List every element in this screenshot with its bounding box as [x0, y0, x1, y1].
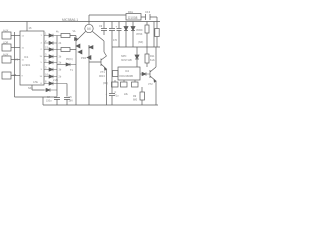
wire top supply bus — [0, 21, 160, 23]
svg-text:3b: 3b — [59, 56, 62, 59]
wire right rail — [156, 28, 158, 47]
svg-text:AUX: AUX — [3, 53, 9, 57]
wire bottom left ground — [15, 96, 58, 98]
resistor R11 — [146, 22, 148, 26]
svg-text:C13: C13 — [145, 10, 151, 14]
svg-text:(NF): (NF) — [138, 40, 143, 44]
battery box GB — [2, 72, 11, 79]
zener VD7 — [124, 22, 128, 48]
svg-text:470: 470 — [113, 39, 118, 42]
svg-text:5: 5 — [45, 59, 47, 63]
capacitor C4 — [54, 98, 60, 106]
resistor R2 — [61, 48, 70, 52]
wire R2 to bridge — [70, 49, 76, 51]
diode VD2 — [78, 50, 82, 54]
wire GB to IC — [11, 75, 20, 77]
svg-text:D1k: D1k — [128, 10, 134, 14]
IC interior pin digits — [22, 35, 43, 85]
wire R1 to bridge — [70, 36, 76, 42]
diode VD5 — [44, 88, 57, 91]
svg-text:VD6C: VD6C — [136, 29, 143, 32]
svg-text:2b: 2b — [59, 62, 62, 65]
svg-text:3: 3 — [45, 66, 47, 70]
wire S1 to IC — [11, 35, 20, 37]
resistor R1 — [61, 34, 70, 38]
svg-text:9: 9 — [22, 76, 24, 78]
svg-text:PR(C): PR(C) — [66, 58, 73, 61]
svg-text:M: M — [87, 26, 90, 31]
svg-text:AUX: AUX — [3, 29, 9, 33]
svg-text:IC1: IC1 — [24, 55, 29, 59]
svg-text:VS: VS — [15, 59, 19, 62]
svg-text:16: 16 — [40, 76, 43, 78]
wire second top bus — [89, 15, 157, 28]
svg-text:2.2k: 2.2k — [53, 78, 59, 82]
diode VD1 — [76, 44, 80, 48]
resistor R6 — [113, 71, 119, 77]
wire motor top pin — [88, 15, 90, 24]
resistor R7 — [112, 82, 119, 87]
svg-text:12: 12 — [22, 36, 25, 38]
capacitor C12 — [109, 94, 115, 96]
wire S2 to IC — [11, 47, 20, 49]
svg-text:16: 16 — [45, 73, 48, 77]
svg-text:4k: 4k — [56, 31, 59, 34]
wire bridge right vertical — [103, 41, 105, 52]
wire bridge right diagonal — [93, 32, 105, 42]
resistor R12 — [146, 47, 148, 54]
svg-text:LC901: LC901 — [22, 63, 31, 67]
svg-text:R11: R11 — [150, 55, 155, 58]
svg-text:11: 11 — [22, 60, 25, 62]
motor M circle — [85, 24, 93, 32]
svg-text:KD9-9600B: KD9-9600B — [120, 74, 134, 78]
switch box S3 — [2, 56, 11, 63]
svg-text:VA: VA — [73, 30, 76, 33]
svg-text:VT1: VT1 — [100, 70, 105, 74]
svg-text:C9: C9 — [99, 25, 103, 28]
wire left ground bus — [14, 32, 16, 97]
wire cap bus 2 — [66, 84, 68, 97]
IC U1 box — [20, 31, 44, 85]
svg-text:T1: T1 — [70, 69, 73, 72]
svg-text:1: 1 — [45, 32, 47, 36]
svg-text:1: 1 — [41, 35, 43, 37]
svg-text:16V: 16V — [69, 100, 74, 103]
svg-text:10: 10 — [22, 48, 25, 50]
capacitor C10 — [109, 22, 115, 106]
wire bottom left step — [42, 97, 44, 105]
wire VT2 collector — [155, 47, 157, 67]
diode VD11 — [66, 63, 76, 66]
svg-text:IC2: IC2 — [125, 69, 130, 73]
svg-text:+: + — [116, 25, 118, 29]
wire VT2 emitter — [155, 81, 157, 105]
diode VD3 — [89, 46, 93, 49]
stub pins IC2 bottom — [115, 80, 135, 82]
resistor R8 — [121, 82, 128, 87]
wire S3 to IC — [11, 59, 20, 61]
svg-text:71u: 71u — [115, 95, 120, 98]
diode VD4 — [75, 38, 79, 41]
svg-text:8: 8 — [45, 80, 47, 84]
svg-text:3: 3 — [45, 53, 47, 57]
wire bottom bus — [43, 104, 158, 106]
zener PR4 — [87, 56, 91, 60]
svg-text:4.5k: 4.5k — [33, 80, 39, 84]
wire VT1 emitter down — [106, 69, 108, 105]
svg-text:2b: 2b — [59, 76, 62, 79]
svg-text:22k: 22k — [124, 93, 129, 96]
svg-text:15: 15 — [45, 46, 48, 50]
diode VD10 — [140, 72, 150, 75]
capacitor C5 — [64, 98, 70, 106]
svg-text:VP6K: VP6K — [136, 33, 143, 36]
svg-text:4: 4 — [41, 43, 43, 45]
svg-text:NF1: NF1 — [28, 86, 33, 90]
wire below IC — [32, 85, 44, 90]
svg-text:3: 3 — [41, 69, 43, 71]
svg-text:2: 2 — [41, 49, 43, 51]
wire row to bridge — [57, 64, 66, 66]
svg-text:NPN: NPN — [121, 55, 126, 58]
diode box D1008 — [126, 14, 141, 21]
switch box S2 — [2, 44, 11, 51]
capacitor C11 — [117, 22, 122, 48]
svg-text:3CN711B: 3CN711B — [121, 59, 132, 62]
svg-text:8.2k: 8.2k — [150, 59, 155, 62]
IC U2 box — [118, 67, 140, 80]
svg-text:PR4: PR4 — [81, 56, 87, 60]
svg-text:680: 680 — [133, 99, 138, 102]
resistor R13 — [141, 87, 143, 92]
resistor R9 — [132, 82, 139, 87]
capacitor C13 — [146, 14, 151, 20]
wire bridge left vertical — [75, 41, 77, 105]
svg-text:3b: 3b — [59, 69, 62, 72]
svg-text:D1008: D1008 — [128, 16, 138, 20]
wire right drop — [153, 22, 155, 48]
switch box S1 — [2, 32, 11, 39]
svg-text:MIC58A6-1: MIC58A6-1 — [62, 18, 78, 22]
wire bridge left diagonal — [76, 32, 86, 42]
svg-text:(NC): (NC) — [103, 82, 108, 85]
svg-text:2b: 2b — [59, 42, 62, 45]
wire mid bus — [56, 36, 58, 97]
resistor R10 — [155, 29, 159, 37]
wire bridge center vertical — [88, 45, 90, 105]
svg-text:15: 15 — [40, 56, 43, 58]
capacitor C9 — [101, 22, 107, 36]
zener VD9 — [135, 47, 139, 67]
svg-text:LDR: LDR — [3, 41, 8, 45]
svg-text:5: 5 — [41, 62, 43, 64]
wire mid right bus — [112, 46, 160, 48]
diode VD8 — [131, 22, 135, 48]
svg-text:9013: 9013 — [99, 74, 105, 78]
transistor VT2 — [150, 67, 156, 82]
wire IC pin 16 top — [26, 22, 28, 32]
svg-text:2: 2 — [45, 39, 47, 43]
svg-text:+: + — [106, 92, 108, 96]
svg-text:150u: 150u — [46, 100, 52, 103]
svg-text:VT2: VT2 — [148, 83, 153, 86]
svg-text:16: 16 — [29, 26, 32, 30]
transistor VT1 — [89, 52, 107, 70]
